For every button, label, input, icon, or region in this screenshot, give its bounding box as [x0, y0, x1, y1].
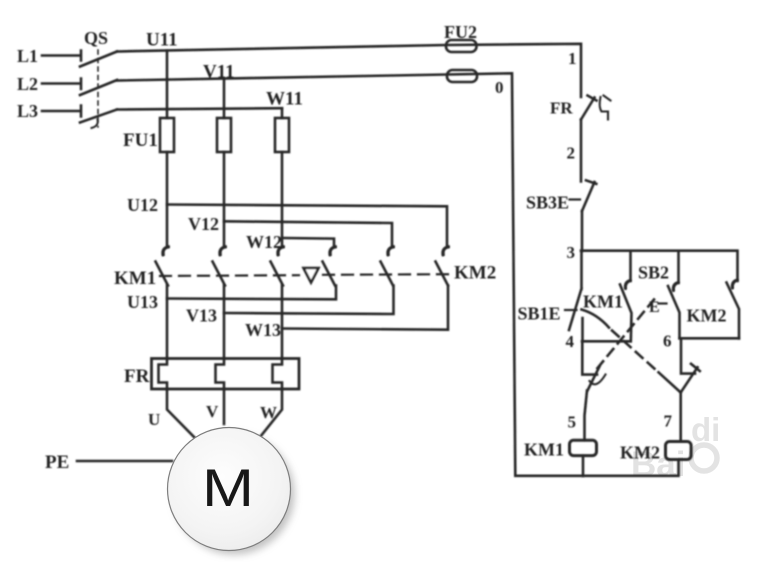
svg-text:V11: V11	[203, 62, 235, 83]
svg-text:FU1: FU1	[123, 130, 158, 151]
svg-text:0: 0	[495, 78, 504, 97]
svg-text:W: W	[260, 403, 277, 422]
svg-text:V: V	[206, 402, 219, 421]
svg-text:KM1: KM1	[524, 440, 564, 460]
svg-text:FR: FR	[124, 366, 150, 387]
svg-text:KM1: KM1	[583, 292, 623, 312]
svg-text:PE: PE	[45, 452, 69, 473]
svg-text:W12: W12	[246, 232, 282, 252]
svg-text:E: E	[649, 299, 660, 316]
svg-text:2: 2	[567, 144, 576, 163]
svg-text:KM1: KM1	[114, 268, 156, 289]
svg-text:L1: L1	[17, 46, 38, 66]
svg-text:6: 6	[663, 332, 672, 351]
svg-text:W11: W11	[266, 89, 303, 110]
svg-text:V12: V12	[188, 214, 219, 234]
svg-text:U: U	[148, 410, 160, 429]
svg-text:L2: L2	[17, 74, 38, 94]
svg-text:W13: W13	[245, 320, 281, 340]
svg-text:3: 3	[567, 243, 576, 262]
svg-text:QS: QS	[84, 28, 108, 48]
svg-text:5: 5	[568, 413, 577, 432]
svg-text:7: 7	[664, 412, 673, 431]
svg-text:FU2: FU2	[444, 22, 477, 42]
svg-text:M: M	[202, 459, 254, 518]
svg-text:KM2: KM2	[687, 306, 727, 326]
svg-text:4: 4	[566, 332, 575, 351]
svg-text:1: 1	[568, 49, 577, 68]
svg-text:FR: FR	[550, 99, 573, 118]
svg-text:KM2: KM2	[620, 443, 660, 463]
svg-text:SB1E: SB1E	[518, 304, 561, 324]
svg-text:SB3E: SB3E	[526, 193, 569, 213]
svg-text:V13: V13	[186, 306, 217, 326]
svg-text:U11: U11	[146, 30, 178, 51]
svg-text:U12: U12	[127, 195, 158, 215]
svg-text:KM2: KM2	[454, 263, 496, 284]
svg-text:SB2: SB2	[638, 263, 669, 283]
svg-text:L3: L3	[17, 101, 38, 121]
svg-text:U13: U13	[127, 292, 158, 312]
